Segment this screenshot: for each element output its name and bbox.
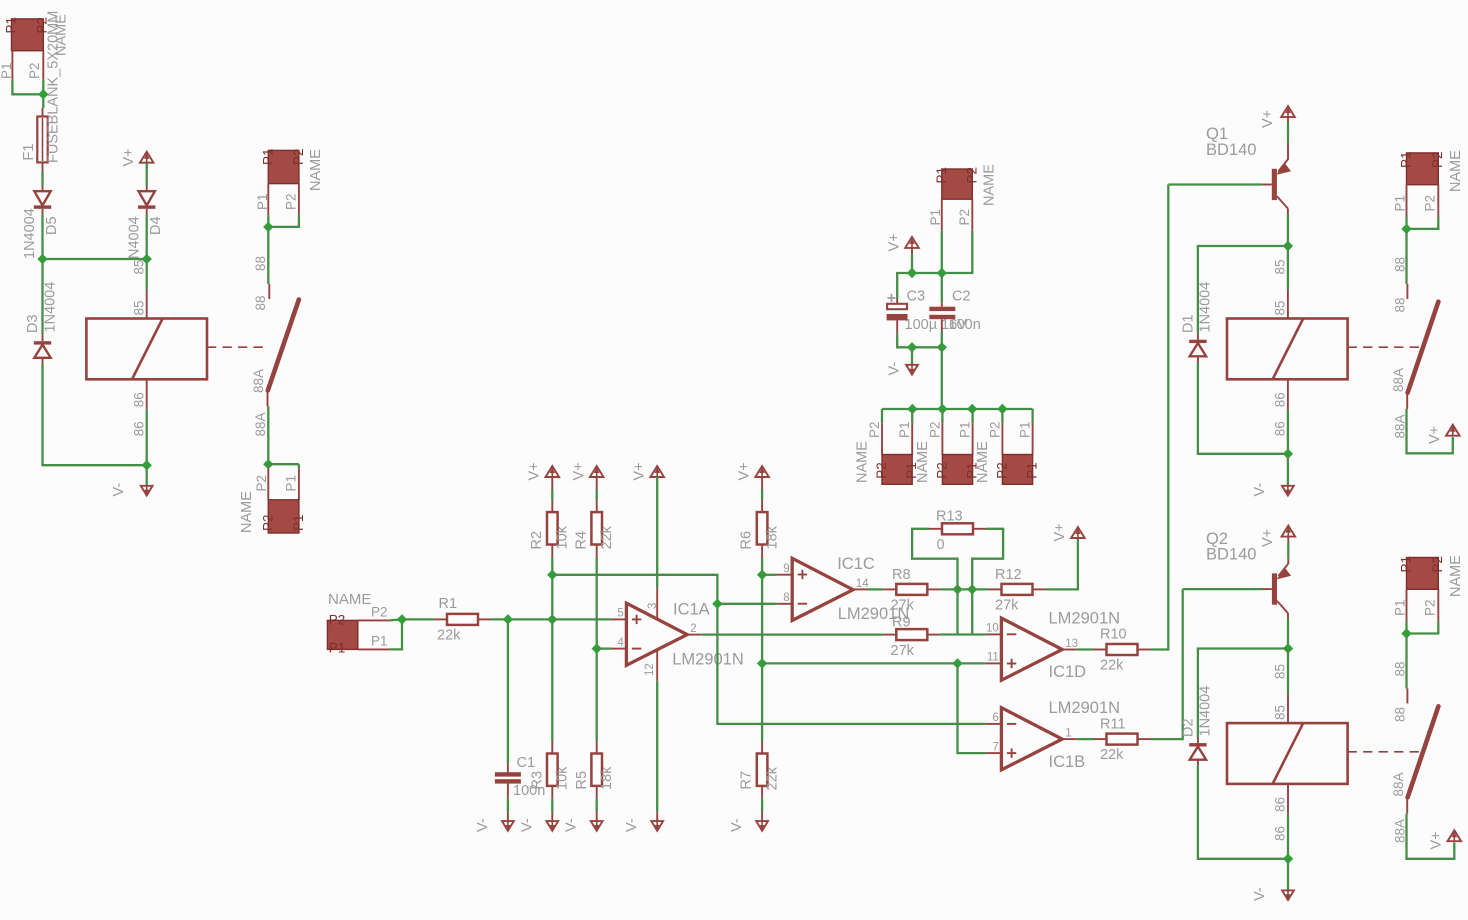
- resistor R12 pin 2: [1033, 588, 1046, 590]
- svg-text:R1: R1: [439, 596, 458, 612]
- wire fuse to D5: [41, 172, 43, 186]
- capacitor C1: [495, 772, 521, 783]
- fuse F1 bottom pin: [42, 162, 44, 172]
- wire to contact 88: [267, 227, 269, 284]
- wire to pin 5: [552, 618, 611, 620]
- op-amp IC1A pin 5: [611, 618, 627, 620]
- svg-text:V+: V+: [737, 462, 753, 480]
- connector X10 pin P2: [1437, 589, 1439, 621]
- svg-text:1N4004: 1N4004: [43, 282, 59, 333]
- junction coil node: [1283, 643, 1293, 653]
- svg-text:V-: V-: [564, 818, 580, 832]
- resistor R10 pin 1: [1094, 649, 1107, 651]
- V+ supply symbol: [650, 466, 664, 477]
- connector X10 (NAME) body: [1407, 558, 1439, 590]
- connector X5 pin P2: [971, 199, 973, 231]
- op-amp IC1B pin 7: [986, 752, 1002, 754]
- svg-text:27k: 27k: [995, 598, 1019, 614]
- capacitor C3 top pin: [896, 299, 898, 304]
- junction: [937, 404, 947, 414]
- connector X4 pin P1: [358, 648, 390, 650]
- svg-text:LM2901N: LM2901N: [1049, 610, 1121, 628]
- wire ref net to pin8/pin6: [552, 575, 986, 724]
- op-amp IC1D pin 11: [986, 662, 1002, 664]
- connector X3 pin P1: [298, 468, 300, 500]
- resistor R5 body: [591, 754, 602, 786]
- svg-text:86: 86: [1273, 826, 1288, 841]
- diode D3 1N4004: [34, 341, 51, 358]
- relay contact arm S3: [1408, 706, 1439, 797]
- svg-text:11: 11: [987, 652, 999, 664]
- wire relay 86 to V- node: [146, 410, 148, 465]
- svg-text:22k: 22k: [765, 766, 781, 790]
- wire R1 to pin5 net: [491, 618, 552, 620]
- wire Q1 collector down: [1287, 214, 1289, 246]
- connector X7 pin P2: [941, 423, 943, 454]
- svg-text:V-: V-: [729, 818, 745, 832]
- diode D4 1N4004: [138, 191, 155, 209]
- junction: [967, 404, 977, 414]
- svg-text:P1: P1: [255, 193, 270, 210]
- relay K2 pin 86: [1287, 379, 1289, 410]
- svg-text:P1: P1: [291, 514, 306, 531]
- op-amp IC1B + input marker: [1007, 748, 1016, 757]
- wire X10 P1: [1405, 621, 1407, 633]
- connector X6 pin P2: [881, 423, 883, 454]
- wire X9 P2: [1407, 217, 1439, 229]
- wire D5 to node A: [41, 215, 43, 260]
- svg-text:R12: R12: [995, 567, 1022, 583]
- V- symbol pin: [551, 812, 553, 821]
- fuse F1 body: [37, 117, 47, 163]
- wire V+ to Q1 emitter: [1287, 123, 1289, 143]
- wire R9 out to pin 10: [940, 633, 986, 635]
- svg-text:IC1B: IC1B: [1049, 753, 1086, 771]
- contact S1 pin 88A: [267, 391, 269, 407]
- transistor Q2 collector pin: [1287, 613, 1289, 619]
- wire contact 88A down: [267, 407, 269, 465]
- svg-text:86: 86: [1273, 797, 1288, 812]
- V- symbol pin: [761, 812, 763, 821]
- connector X9 pin P1: [1406, 185, 1408, 217]
- resistor R1 pin 1: [434, 618, 447, 620]
- V+ symbol pin: [1287, 117, 1289, 123]
- V- supply symbol: [546, 821, 558, 831]
- svg-text:22k: 22k: [1100, 747, 1124, 763]
- svg-text:P1: P1: [1399, 556, 1414, 573]
- capacitor C1 bottom pin: [507, 784, 509, 799]
- wire pin1 to R11: [1077, 738, 1094, 740]
- wire to V-: [146, 465, 148, 486]
- wire P1 to node: [390, 619, 402, 649]
- wire V+ to R6: [761, 490, 763, 501]
- connector X9 pin P2: [1437, 185, 1439, 217]
- wire to V-: [911, 347, 913, 365]
- junction node A right: [142, 254, 152, 264]
- relay coil K1: [86, 319, 207, 380]
- resistor R6 pin 2: [761, 545, 763, 558]
- contact S3 pin 88A: [1406, 797, 1408, 813]
- relay contact arm S2: [1408, 302, 1439, 393]
- svg-text:V-: V-: [111, 483, 127, 497]
- svg-text:V+: V+: [887, 233, 903, 251]
- resistor R10 body: [1107, 644, 1138, 655]
- resistor R1 body: [447, 614, 478, 625]
- connector X6 (NAME) body: [882, 455, 912, 485]
- wire P2 to node: [390, 619, 402, 620]
- svg-text:P2: P2: [254, 475, 269, 492]
- svg-text:85: 85: [1273, 705, 1288, 720]
- svg-text:88A: 88A: [1391, 368, 1406, 392]
- svg-text:P2: P2: [27, 62, 42, 79]
- svg-text:P1: P1: [897, 421, 912, 438]
- transistor Q1 base pin: [1262, 184, 1272, 186]
- svg-text:V-: V-: [475, 818, 491, 832]
- svg-text:22k: 22k: [437, 628, 461, 644]
- fuse F1 top pin: [42, 108, 44, 117]
- relay K1 actuation dashed line: [207, 346, 263, 348]
- svg-text:D4: D4: [148, 216, 164, 235]
- svg-text:85: 85: [1273, 300, 1288, 315]
- op-amp IC1C pin 8: [777, 603, 793, 605]
- junction pin 8 tap: [712, 599, 722, 609]
- op-amp IC1D + input marker: [1007, 659, 1016, 668]
- transistor Q2 emitter: [1277, 564, 1292, 580]
- junction: [1283, 449, 1293, 459]
- V+ supply symbol: [1448, 830, 1462, 841]
- svg-text:P2: P2: [957, 209, 972, 226]
- svg-text:R9: R9: [892, 615, 911, 631]
- svg-text:R7: R7: [739, 771, 755, 790]
- op-amp IC1C: [792, 558, 853, 620]
- op-amp IC1D - input marker: [1007, 633, 1016, 635]
- wire to pin 8: [717, 603, 776, 605]
- resistor R3 pin 2: [551, 786, 553, 798]
- resistor R2 pin 1: [551, 500, 553, 512]
- resistor R8 pin 2: [927, 588, 940, 590]
- svg-text:27k: 27k: [891, 643, 915, 659]
- resistor R9 pin 1: [883, 634, 896, 636]
- transistor Q2 base bar: [1272, 573, 1277, 604]
- resistor R2 body: [547, 512, 558, 544]
- diode D1 cathode pin: [1197, 334, 1199, 342]
- connector X6 pin P1: [911, 423, 913, 454]
- svg-text:P2: P2: [291, 148, 306, 165]
- wire D1 anode to coil node: [1198, 362, 1288, 454]
- capacitor C3 bottom pin: [896, 320, 898, 333]
- junction: [38, 89, 48, 99]
- relay K3 actuation dashed line: [1348, 751, 1419, 753]
- resistor R11 pin 2: [1138, 738, 1151, 740]
- capacitor C2 top pin: [941, 303, 943, 307]
- contact S3 pin 88: [1406, 689, 1408, 704]
- wire 88A to V+: [1407, 814, 1455, 859]
- svg-text:P1: P1: [0, 62, 14, 79]
- junction C1 tap: [503, 614, 513, 624]
- op-amp IC1B pin 6: [986, 723, 1002, 725]
- resistor R1 pin 2: [478, 618, 491, 620]
- svg-text:14: 14: [856, 578, 869, 590]
- svg-text:P2: P2: [994, 462, 1009, 479]
- junction pin5 row: [547, 614, 557, 624]
- V- symbol pin: [656, 812, 658, 821]
- wire K3 86 down: [1287, 814, 1289, 858]
- svg-text:R3: R3: [530, 771, 546, 790]
- wire to X6 P2: [881, 409, 883, 423]
- wire to D2 cathode: [1198, 649, 1288, 738]
- junction: [1283, 854, 1293, 864]
- svg-text:NAME: NAME: [982, 164, 998, 206]
- wire to pin 9: [762, 574, 777, 576]
- svg-text:5: 5: [617, 608, 623, 620]
- capacitor C2 body: [929, 307, 955, 319]
- capacitor C3 plus marker: [888, 294, 896, 302]
- wire V+ to Q2 emitter: [1287, 543, 1289, 560]
- wire node to R1: [402, 618, 434, 620]
- connector X3 pin P2: [267, 468, 269, 500]
- op-amp IC1A pin 2 output: [687, 634, 702, 636]
- svg-text:V+: V+: [121, 148, 137, 166]
- diode D1 1N4004: [1189, 340, 1206, 357]
- svg-text:88: 88: [1393, 707, 1408, 722]
- transistor Q1 emitter: [1277, 159, 1292, 175]
- svg-text:P2: P2: [1430, 151, 1445, 168]
- svg-text:P1: P1: [1393, 599, 1408, 616]
- svg-text:86: 86: [1273, 392, 1288, 407]
- wire P1 to node: [12, 79, 43, 94]
- svg-text:P2: P2: [260, 514, 275, 531]
- svg-text:D1: D1: [1181, 314, 1197, 333]
- capacitor C1 top pin: [507, 763, 509, 772]
- wire X5 P2 to C3: [897, 231, 972, 299]
- relay contact arm S1: [268, 300, 299, 391]
- resistor R7 pin 1: [761, 742, 763, 754]
- svg-text:R10: R10: [1100, 627, 1127, 643]
- resistor R5 pin 1: [596, 742, 598, 754]
- V- supply symbol: [756, 821, 768, 831]
- capacitor C2 bottom pin: [941, 319, 943, 332]
- diode D3 cathode pin: [42, 334, 44, 342]
- diode D1 anode pin: [1197, 356, 1199, 362]
- svg-text:P2: P2: [927, 421, 942, 438]
- wire R13 right loop: [972, 529, 1003, 590]
- connector X8 (NAME) body: [1002, 455, 1032, 485]
- junction V- symbol tap: [907, 342, 917, 352]
- svg-text:P2: P2: [934, 462, 949, 479]
- contact S2 pin 88: [1406, 284, 1408, 299]
- wire to X3 P1: [298, 464, 300, 468]
- op-amp IC1A pin 12 V-: [656, 649, 658, 681]
- V+ supply symbol: [1446, 425, 1460, 436]
- wire V- rail to connectors: [941, 347, 943, 409]
- V- supply symbol: [502, 821, 514, 831]
- connector X7 pin P1: [972, 423, 974, 454]
- wire R7 to V-: [761, 798, 763, 812]
- junction pin 7 tap: [952, 658, 962, 668]
- wire C3 to V- rail: [897, 334, 912, 348]
- diode D5 1N4004: [34, 191, 51, 209]
- svg-text:R13: R13: [936, 509, 963, 525]
- V+ symbol pin: [761, 477, 763, 490]
- wire to X7 P2: [941, 409, 943, 423]
- resistor R4 body: [591, 512, 602, 544]
- relay coil K3: [1227, 723, 1348, 784]
- wire node A to relay coil: [146, 259, 148, 290]
- op-amp IC1C + input marker: [798, 570, 807, 579]
- op-amp IC1B: [1001, 708, 1062, 770]
- svg-text:LM2901N: LM2901N: [1049, 699, 1121, 717]
- junction: [263, 222, 273, 232]
- svg-text:BD140: BD140: [1206, 141, 1256, 159]
- svg-text:88: 88: [253, 295, 268, 310]
- connector X1 pin P2: [42, 51, 44, 80]
- svg-text:P1: P1: [934, 167, 949, 184]
- junction pin4 row: [592, 643, 602, 653]
- V- symbol pin: [596, 812, 598, 821]
- svg-text:N4004: N4004: [127, 216, 143, 259]
- wire rail to C2: [941, 273, 943, 303]
- V+ supply symbol: [546, 466, 560, 477]
- op-amp IC1B - input marker: [1007, 723, 1016, 725]
- wire R5 to V-: [596, 798, 598, 812]
- resistor R5 pin 2: [596, 786, 598, 798]
- svg-text:P1: P1: [284, 475, 299, 492]
- resistor R7 pin 2: [761, 786, 763, 798]
- svg-text:P1: P1: [4, 17, 19, 34]
- junction: [397, 614, 407, 624]
- svg-text:P1: P1: [958, 421, 973, 438]
- svg-text:P1: P1: [371, 634, 388, 649]
- svg-text:13: 13: [1065, 638, 1078, 650]
- wire R3 to V-: [551, 798, 553, 812]
- junction V+ symbol tap: [907, 268, 917, 278]
- wire to K2 pin 85: [1287, 246, 1289, 290]
- svg-text:85: 85: [132, 259, 147, 274]
- svg-text:C2: C2: [952, 289, 971, 305]
- diode D2 1N4004: [1189, 743, 1206, 760]
- diode D3 anode pin: [42, 358, 44, 364]
- V- supply symbol: [1282, 890, 1294, 900]
- connector X2 (NAME) body: [268, 150, 299, 183]
- svg-text:22k: 22k: [599, 525, 615, 549]
- svg-text:P1: P1: [928, 209, 943, 226]
- svg-text:P2: P2: [329, 613, 346, 628]
- svg-text:FUSEBLANK_5X20MM: FUSEBLANK_5X20MM: [46, 11, 62, 163]
- wire R2 to divider node: [551, 558, 553, 620]
- wire X2 P1: [267, 215, 269, 227]
- wire X2 P2: [268, 215, 299, 227]
- svg-text:V-: V-: [624, 818, 640, 832]
- V- supply symbol: [906, 365, 918, 375]
- resistor R7 body: [757, 754, 768, 786]
- wire to K3 pin 85: [1287, 649, 1289, 695]
- svg-text:10k: 10k: [555, 766, 571, 790]
- wire connector tie row: [882, 408, 1033, 410]
- svg-text:9: 9: [783, 563, 789, 575]
- capacitor C3 body: [887, 304, 908, 321]
- svg-text:86: 86: [132, 392, 147, 407]
- wire X10 P2: [1407, 621, 1439, 633]
- resistor R2 pin 2: [551, 545, 553, 558]
- junction: [1401, 224, 1411, 234]
- relay K3 pin 85: [1287, 694, 1289, 723]
- wire to contact 88: [1405, 634, 1407, 689]
- relay coil K2: [1227, 319, 1348, 380]
- svg-text:P2: P2: [987, 421, 1002, 438]
- junction: [1401, 628, 1411, 638]
- svg-text:85: 85: [1273, 664, 1288, 679]
- op-amp IC1C pin 14 output: [853, 588, 868, 590]
- wire pin 11 net: [762, 662, 986, 664]
- svg-text:IC1A: IC1A: [673, 600, 710, 618]
- svg-text:P1: P1: [1399, 151, 1414, 168]
- relay K3 pin 86: [1287, 784, 1289, 815]
- V+ supply symbol: [1071, 527, 1085, 538]
- svg-text:4: 4: [617, 637, 624, 649]
- resistor R8 pin 1: [883, 588, 896, 590]
- diode D4 anode pin: [146, 209, 148, 215]
- wire 88A to V+: [1407, 409, 1453, 453]
- svg-text:BD140: BD140: [1206, 546, 1256, 564]
- V+ symbol pin: [551, 477, 553, 490]
- op-amp IC1C - input marker: [798, 603, 807, 605]
- wire R8 out to R12: [940, 588, 988, 590]
- wire P2 to fuse: [42, 79, 44, 108]
- connector X8 pin P2: [1001, 423, 1003, 454]
- op-amp IC1C pin 9: [777, 574, 793, 576]
- transistor Q1 collector pin: [1287, 209, 1289, 215]
- wire R10 to Q1 base: [1151, 185, 1169, 650]
- svg-text:1N4004: 1N4004: [22, 208, 38, 259]
- junction V- rail: [937, 342, 947, 352]
- resistor R13 pin 2: [973, 528, 986, 530]
- resistor R13 pin 1: [929, 528, 942, 530]
- V+ symbol pin: [911, 248, 913, 254]
- diode D2 anode pin: [1197, 760, 1199, 766]
- svg-text:88A: 88A: [251, 369, 266, 393]
- V- supply symbol: [1282, 486, 1294, 496]
- transistor Q2 base pin: [1262, 588, 1272, 590]
- transistor Q1 collector: [1277, 196, 1288, 208]
- wire K2 86 down: [1287, 410, 1289, 454]
- svg-text:10k: 10k: [555, 525, 571, 549]
- relay K2 actuation dashed line: [1348, 346, 1419, 348]
- diode D5 cathode pin: [42, 186, 44, 192]
- wire D3 to V- node: [43, 364, 147, 466]
- svg-text:R8: R8: [892, 567, 911, 583]
- wire pin 7 net: [958, 663, 986, 753]
- svg-text:NAME: NAME: [1448, 555, 1464, 597]
- op-amp IC1A: [626, 603, 687, 665]
- transistor Q2 emitter pin: [1287, 559, 1289, 564]
- svg-text:R2: R2: [529, 531, 545, 550]
- connector X4 pin P2: [358, 619, 390, 621]
- relay K1 pin 85: [146, 290, 148, 319]
- svg-text:P2: P2: [284, 193, 299, 210]
- svg-text:R6: R6: [739, 531, 755, 550]
- wire V+ to R2: [551, 490, 553, 501]
- svg-text:8: 8: [783, 592, 789, 604]
- svg-text:D2: D2: [1181, 718, 1197, 737]
- resistor R3 pin 1: [551, 742, 553, 754]
- relay K2 pin 85: [1287, 290, 1289, 319]
- svg-text:18k: 18k: [765, 525, 781, 549]
- wire to X8 P1: [1031, 409, 1033, 423]
- resistor R10 pin 2: [1138, 649, 1151, 651]
- wire node to C1: [507, 619, 509, 763]
- junction: [263, 459, 273, 469]
- op-amp IC1A pin 3 V+: [656, 589, 658, 620]
